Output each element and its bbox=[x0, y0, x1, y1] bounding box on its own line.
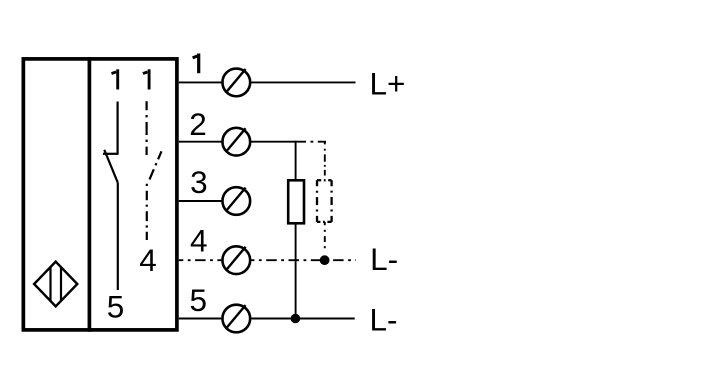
svg-text:4: 4 bbox=[190, 223, 208, 259]
svg-text:4: 4 bbox=[139, 242, 157, 278]
svg-text:5: 5 bbox=[107, 289, 125, 325]
svg-text:L-: L- bbox=[370, 302, 398, 338]
svg-text:2: 2 bbox=[189, 106, 207, 142]
svg-text:L-: L- bbox=[370, 241, 398, 277]
svg-text:L+: L+ bbox=[370, 65, 406, 101]
svg-text:3: 3 bbox=[190, 164, 208, 200]
svg-text:5: 5 bbox=[190, 282, 208, 318]
